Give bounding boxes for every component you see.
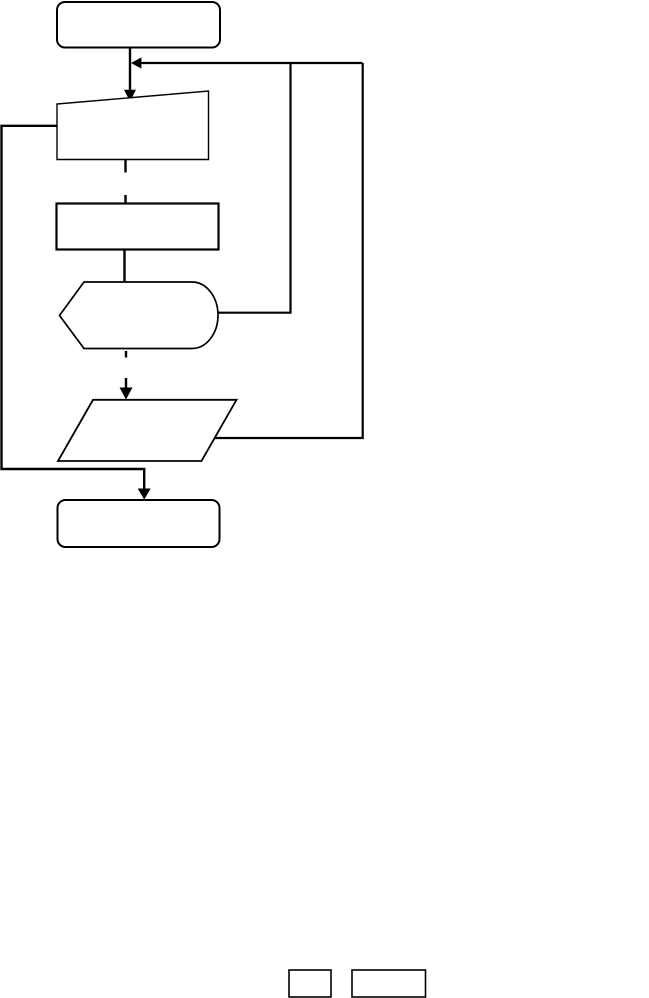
data parallelogram (input/output) [58,400,237,461]
wire: arrow from start terminator down into card [124,48,136,102]
process box (rectangle) [57,204,219,250]
legend box small [289,970,331,997]
wire: dashed link card to process (segment 2) [124,195,126,204]
wire: dashed link card to process (segment 1) [124,160,126,173]
wire: dashed arrow display to data parallelogram (dash segment) [125,351,127,358]
wire: connector from parallelogram right side up rail B [215,63,363,438]
wire: solid link process to display [123,250,125,282]
terminator end (bottom rounded rectangle) [58,500,220,547]
card shape (slanted top rectangle) [57,91,209,160]
terminator start (top rounded rectangle) [57,2,220,48]
wire: left connector from card around to bottom terminator with arrowhead [2,126,151,500]
display shape (pointed left, rounded right) [60,282,219,349]
wire: feedback line from right rail B with left arrowhead into the vertical drop [131,57,363,68]
wire: connector from display right side up to feedback line (rail A) [218,63,291,313]
wire: dashed arrow display to data parallelogram (stem and head) [120,378,133,400]
legend box wide [352,970,426,997]
